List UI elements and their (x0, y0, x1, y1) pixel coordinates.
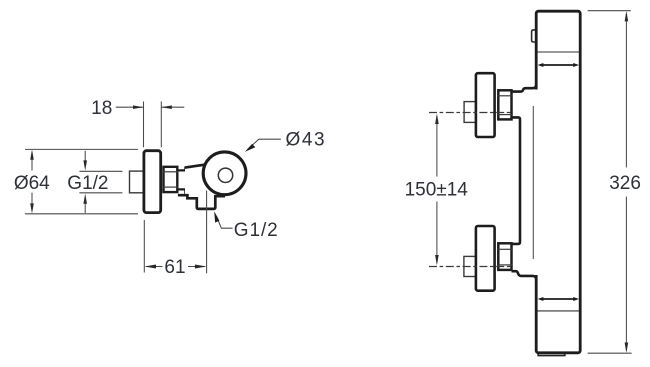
wall flange Ø64 (144, 151, 161, 213)
handle hub circle (218, 168, 232, 182)
upper pipe bottom edge, mid profile, lower pipe top edge (512, 117, 521, 243)
svg-text:18: 18 (91, 98, 112, 119)
dimension 326 line and arrows (625, 11, 629, 353)
lower wall stub G1/2 (464, 256, 476, 276)
svg-text:61: 61 (164, 257, 185, 278)
dimension label G1/2 bottom (234, 220, 279, 241)
dimension 150±14 line and arrows (435, 114, 439, 266)
handle circle Ø43 (203, 152, 246, 195)
upper centerline dashed (429, 112, 512, 114)
upper wall stub G1/2 (464, 102, 476, 123)
top fixing tab (532, 30, 539, 42)
top arrowed joint line (538, 63, 579, 67)
dimension Ø64 extension lines (25, 149, 138, 213)
dimension label G1/2 left (67, 173, 108, 194)
dimension label 61 (164, 257, 185, 278)
neck between nut and body (178, 167, 185, 196)
upper flange (476, 73, 495, 137)
upper pipe top edge with jog to bar (512, 85, 537, 92)
top cap joint line (537, 51, 579, 53)
thin silhouette line on bar (532, 106, 534, 259)
bottom tab (538, 353, 565, 356)
dimension 326 extension lines (588, 11, 632, 354)
dimension 61 extension lines (144, 191, 206, 274)
dimension 18 extension lines (144, 102, 162, 148)
dimension 18 leader and arrows (116, 105, 185, 109)
bottom arrowed joint line (538, 297, 579, 301)
lower centerline dashed (429, 266, 512, 268)
dimension label Ø64 (14, 173, 50, 194)
dimension G1/2 arrows (83, 151, 87, 213)
valve body (178, 164, 225, 209)
svg-text:326: 326 (609, 173, 641, 194)
leader G1/2 bottom (214, 211, 232, 228)
bar body (536, 11, 580, 353)
dimension label Ø43 (286, 129, 327, 150)
dimension 61 line and arrows (144, 265, 206, 269)
leader Ø43 (245, 139, 281, 152)
lower flange (476, 226, 495, 291)
svg-text:Ø64: Ø64 (14, 173, 50, 194)
dimension label 18 (91, 98, 112, 119)
svg-text:150±14: 150±14 (405, 180, 469, 201)
dimension label 150±14 (405, 180, 469, 201)
wall inlet stub G1/2 (130, 171, 145, 193)
dimension label 326 (609, 173, 641, 194)
svg-text:G1/2: G1/2 (234, 220, 279, 241)
bottom joint line (537, 310, 579, 312)
white masks for pipe openings into bar (534, 90, 539, 276)
connection nut (163, 167, 178, 192)
svg-text:Ø43: Ø43 (286, 129, 327, 150)
lower union nut (498, 243, 512, 270)
svg-text:G1/2: G1/2 (67, 173, 108, 194)
dimension G1/2 tick lines (79, 171, 122, 193)
lower pipe bottom edge with jog to bar (512, 271, 537, 279)
upper union nut (498, 90, 512, 119)
dimension Ø64 line and arrows (30, 150, 34, 214)
